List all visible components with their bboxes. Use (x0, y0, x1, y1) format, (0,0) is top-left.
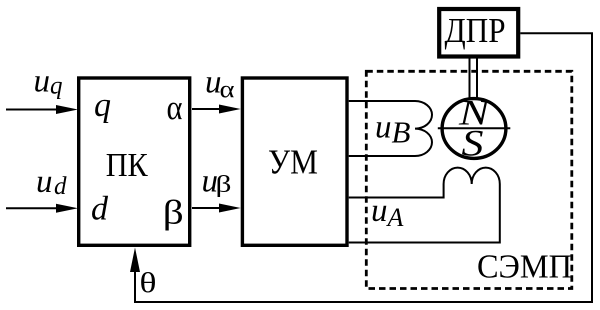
svg-text:ДПР: ДПР (445, 11, 506, 50)
svg-text:СЭМП: СЭМП (477, 249, 572, 286)
svg-text:β: β (216, 172, 232, 198)
svg-text:q: q (94, 87, 111, 124)
svg-text:ПК: ПК (106, 147, 148, 184)
svg-text:d: d (91, 191, 109, 228)
svg-text:S: S (462, 124, 484, 165)
svg-text:β: β (163, 195, 184, 232)
svg-text:УМ: УМ (268, 143, 318, 182)
svg-text:α: α (167, 88, 183, 127)
svg-text:α: α (220, 76, 235, 103)
svg-text:uB: uB (375, 110, 411, 150)
svg-text:θ: θ (140, 267, 157, 299)
